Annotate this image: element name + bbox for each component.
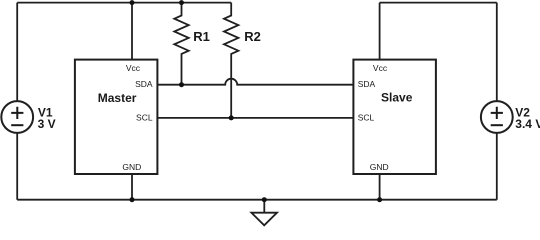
IC box Slave U2 bbox=[353, 60, 436, 174]
wire left vertical V1 top bbox=[16, 3, 18, 101]
wire bottom ground rail bbox=[17, 199, 497, 201]
wire left vertical V1 bottom bbox=[16, 133, 18, 200]
svg-text:3.4 V: 3.4 V bbox=[515, 117, 540, 131]
svg-text:Master: Master bbox=[98, 91, 137, 105]
V1 minus sign bbox=[11, 124, 23, 126]
svg-text:SCL: SCL bbox=[136, 113, 153, 123]
ground symbol bbox=[251, 200, 277, 226]
wire top-left net (Vcc rail V1 side) bbox=[17, 2, 231, 4]
junction dot top rail / R1 bbox=[179, 0, 184, 5]
svg-text:Vcc: Vcc bbox=[373, 63, 388, 73]
junction dot ground rail / Master GND bbox=[130, 197, 135, 202]
wire Slave Vcc stub bbox=[379, 3, 381, 60]
svg-text:GND: GND bbox=[370, 162, 389, 172]
wire SCL net bbox=[157, 117, 353, 119]
svg-text:SDA: SDA bbox=[135, 79, 153, 89]
wire Slave GND stub bbox=[379, 174, 381, 200]
svg-text:SCL: SCL bbox=[358, 113, 375, 123]
wire Master GND stub bbox=[131, 174, 133, 200]
junction dot ground rail / ground symbol bbox=[262, 197, 267, 202]
wire right vertical V2 top bbox=[496, 3, 498, 101]
wire SDA net with hop over R2 bbox=[157, 79, 353, 85]
voltage source V2 circle bbox=[481, 101, 513, 133]
resistor R1 bbox=[174, 3, 188, 85]
wire top-right net (Vcc rail V2 side) bbox=[380, 2, 497, 4]
svg-text:R2: R2 bbox=[244, 29, 261, 44]
svg-text:SDA: SDA bbox=[358, 79, 376, 89]
wire right vertical V2 bottom bbox=[496, 133, 498, 200]
junction dot SCL / R2 bbox=[229, 115, 234, 120]
V1 plus sign bbox=[11, 107, 23, 119]
svg-text:Vcc: Vcc bbox=[126, 63, 141, 73]
wire Master Vcc stub bbox=[131, 3, 133, 60]
voltage source V1 circle bbox=[1, 101, 33, 133]
V2 minus sign bbox=[491, 124, 503, 126]
junction dot ground rail / Slave GND bbox=[377, 197, 382, 202]
junction dot top rail / Master Vcc bbox=[130, 0, 135, 5]
IC box Master U1 bbox=[75, 60, 157, 174]
svg-text:Slave: Slave bbox=[381, 91, 413, 105]
V2 plus sign bbox=[491, 107, 503, 119]
svg-text:GND: GND bbox=[122, 162, 141, 172]
svg-text:R1: R1 bbox=[193, 29, 210, 44]
resistor R2 bbox=[224, 3, 238, 118]
junction dot SDA / R1 bbox=[179, 82, 184, 87]
svg-text:3 V: 3 V bbox=[38, 117, 56, 131]
